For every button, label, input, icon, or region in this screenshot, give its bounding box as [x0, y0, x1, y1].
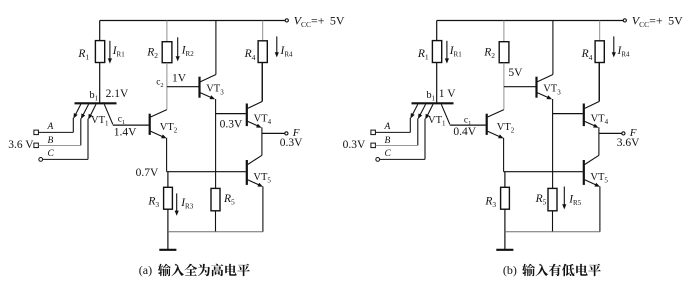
wire VT2 emitter to node (a) [166, 138, 168, 172]
svg-text:(b): (b) [503, 263, 517, 277]
svg-text:B: B [48, 136, 54, 146]
svg-text:2.1V: 2.1V [106, 88, 129, 100]
wire VCC top rail (b) [437, 20, 624, 22]
VT1 collector (b) [441, 104, 450, 124]
svg-text:0.7V: 0.7V [136, 167, 159, 179]
VCC terminal (a) [285, 19, 288, 22]
transistor VT4 base bar (b) [583, 104, 585, 127]
wire VT3 emitter to R5 (b) [552, 99, 554, 188]
resistor R2 (a) [166, 21, 168, 42]
VCC terminal (b) [623, 19, 626, 22]
VT2 emitter (b) [488, 131, 501, 137]
ground (b) [496, 249, 513, 251]
VT5 collector (b) [585, 155, 599, 164]
VT1 emitter 1 (a) [75, 104, 81, 115]
input terminal A (a) [34, 130, 39, 135]
VT3 emitter (b) [537, 93, 549, 98]
output terminal F (a) [285, 132, 288, 135]
output terminal F (b) [622, 132, 625, 135]
VT1 emitter 2 (b) [420, 104, 426, 115]
wire bottom rail (b) [505, 231, 600, 233]
transistor VT3 base bar (b) [535, 77, 537, 98]
wire VT4 base (b) [553, 113, 583, 115]
transistor VT3 base bar (a) [198, 77, 200, 98]
input terminal B (b) [371, 143, 376, 148]
wire node c2 (a) [167, 86, 199, 88]
svg-text:3.6 V: 3.6 V [8, 139, 34, 151]
current arrow IR1 (b) [446, 41, 448, 60]
transistor VT2 base bar (b) [486, 114, 488, 135]
transistor VT4 base bar (a) [246, 104, 248, 127]
svg-text:1.4V: 1.4V [114, 126, 137, 138]
current arrow IR4 (b) [613, 36, 615, 53]
wire node c1 (a) [113, 124, 149, 126]
svg-text:1 V: 1 V [439, 88, 456, 100]
resistor R3 (a) [167, 172, 169, 188]
VT1 emitter 1 (b) [412, 104, 418, 115]
VT4 collector (a) [248, 102, 262, 109]
VT1 emitter 3 (b) [427, 104, 433, 116]
svg-text:0.4V: 0.4V [453, 126, 476, 138]
VT3 emitter (a) [200, 93, 212, 98]
transistor VT5 base bar (b) [583, 160, 585, 185]
resistor R5 (b) [548, 188, 557, 210]
wire VT3 emitter to R5 (a) [215, 99, 217, 188]
VT3 collector (a) [200, 75, 216, 82]
wire output F (a) [262, 132, 285, 134]
VT1 collector (a) [104, 104, 113, 124]
VT5 emitter (a) [248, 180, 260, 186]
svg-text:0.3V: 0.3V [343, 139, 366, 151]
resistor R4 (a) [262, 21, 264, 41]
wire VCC top rail (a) [100, 20, 286, 22]
VT3 collector (b) [537, 75, 553, 82]
VT2 collector (b) [488, 110, 504, 117]
wire VT5 collector (b) [598, 133, 600, 155]
wire node c2 (b) [504, 86, 536, 88]
VT4 emitter (a) [248, 121, 259, 126]
svg-text:0.3V: 0.3V [220, 119, 243, 131]
current arrow IR3 (a) [176, 193, 178, 211]
VT2 emitter (a) [151, 131, 164, 137]
svg-text:(a): (a) [139, 263, 152, 277]
svg-text:3.6V: 3.6V [617, 137, 640, 149]
resistor R1 (b) [436, 21, 438, 41]
wire node c1 (b) [450, 124, 486, 126]
resistor R2 (b) [503, 21, 505, 42]
VT1 emitter 2 (a) [83, 104, 89, 115]
transistor VT1 base bar (a) [75, 102, 117, 104]
svg-text:A: A [384, 122, 391, 132]
ground (a) [159, 249, 176, 251]
VT5 emitter (b) [585, 180, 597, 186]
svg-text:A: A [47, 122, 54, 132]
resistor R4 (b) [599, 21, 601, 41]
svg-text:C: C [48, 149, 55, 159]
svg-text:B: B [385, 136, 391, 146]
current arrow IR1 (a) [109, 41, 111, 60]
transistor VT1 base bar (b) [412, 102, 454, 104]
input terminal C (b) [376, 158, 380, 162]
wire VT5 collector (a) [261, 133, 263, 155]
wire VT5 base node (a) [167, 171, 246, 173]
current arrow IR5 (b) [563, 187, 565, 206]
current arrow IR2 (a) [177, 37, 179, 57]
input terminal C (a) [39, 158, 43, 162]
input terminal B (a) [34, 143, 39, 148]
VT1 emitter 3 (a) [90, 104, 96, 116]
VT4 emitter (b) [585, 121, 596, 126]
resistor R1 (a) [99, 21, 101, 41]
resistor R5 (a) [211, 188, 220, 210]
VT5 collector (a) [248, 155, 262, 164]
wire VT4 base (a) [216, 113, 246, 115]
svg-text:5V: 5V [508, 67, 523, 79]
input terminal A (b) [371, 130, 376, 135]
transistor VT2 base bar (a) [149, 114, 151, 135]
current arrow IR4 (a) [276, 36, 278, 53]
wire output F (b) [599, 132, 622, 134]
wire VT5 base node (b) [504, 171, 583, 173]
svg-text:1V: 1V [172, 73, 187, 85]
transistor VT5 base bar (a) [246, 160, 248, 185]
resistor R3 (b) [504, 172, 506, 188]
svg-text:b1​: b1​ [426, 90, 435, 103]
wire VT2 emitter to node (b) [503, 138, 505, 172]
svg-text:b1​: b1​ [89, 90, 98, 103]
VT2 collector (a) [151, 110, 167, 117]
wire bottom rail (a) [168, 231, 263, 233]
VT4 collector (b) [585, 102, 599, 109]
svg-text:0.3V: 0.3V [280, 137, 303, 149]
svg-text:C: C [385, 149, 392, 159]
